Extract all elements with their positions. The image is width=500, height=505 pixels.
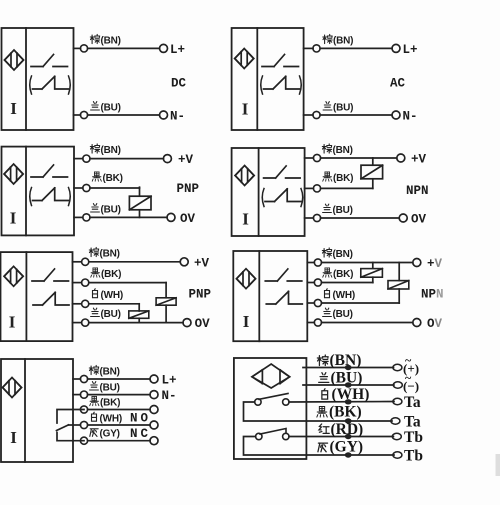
svg-text:(BN): (BN) <box>330 352 362 369</box>
wire load down to BK <box>372 179 374 189</box>
svg-text:(RD): (RD) <box>331 421 364 438</box>
svg-text:I: I <box>242 210 249 229</box>
wire WH branch down <box>138 304 140 311</box>
sensor symbol U2 <box>235 49 254 69</box>
wire load to 0V rail <box>139 210 141 218</box>
svg-text:(BK): (BK) <box>100 398 120 409</box>
svg-text:(BN): (BN) <box>101 145 121 156</box>
sensor box U4 <box>232 148 305 236</box>
parentheses <box>30 188 71 206</box>
wire BK <box>74 187 83 189</box>
artifact gray block at right edge <box>496 454 500 476</box>
sensor symbol U7 <box>3 378 22 398</box>
label BN <box>322 248 353 260</box>
svg-text:(BN): (BN) <box>333 145 353 156</box>
node +V <box>413 259 421 267</box>
relay common bracket from BK <box>57 410 84 424</box>
wire BU <box>74 216 83 218</box>
parentheses <box>262 189 303 207</box>
svg-text:(GY): (GY) <box>100 429 120 440</box>
node Tb1 <box>392 433 401 439</box>
node 0V <box>413 319 421 327</box>
wire BU <box>73 322 82 324</box>
node 0V <box>167 213 175 221</box>
node +V <box>163 155 171 163</box>
wire BU <box>73 394 80 396</box>
load R1 <box>129 196 151 210</box>
wire BK branch down <box>165 283 167 298</box>
wire BN <box>305 157 314 159</box>
programmable ramp S4b <box>265 189 301 202</box>
label BU <box>90 382 120 394</box>
wire +V rail down to load <box>372 158 374 165</box>
node Tb2 <box>393 452 402 458</box>
label BU <box>91 102 121 114</box>
svg-text:NPN: NPN <box>421 288 444 302</box>
parentheses <box>261 76 302 94</box>
label BK (big) <box>317 404 362 421</box>
wire WH <box>307 302 314 304</box>
wire load R5 to BK <box>372 277 374 282</box>
node N- <box>150 391 158 399</box>
label BU <box>323 102 353 114</box>
node N- <box>392 111 400 119</box>
label BN (big) <box>317 352 361 369</box>
load R2 <box>361 165 383 179</box>
node 0V <box>183 319 191 327</box>
svg-text:L+: L+ <box>170 43 185 57</box>
svg-text:(GY): (GY) <box>330 439 364 456</box>
svg-text:(WH): (WH) <box>101 290 124 301</box>
svg-text:NO: NO <box>130 412 151 426</box>
svg-text:I: I <box>9 313 16 332</box>
contact K2 bracket to GY wire <box>244 437 307 456</box>
wire BK <box>305 187 314 189</box>
node +V <box>180 258 188 266</box>
label WH <box>92 412 123 424</box>
node N- <box>160 111 168 119</box>
node Ta2 <box>391 418 400 424</box>
NO contact S6 <box>265 269 302 281</box>
svg-text:PNP: PNP <box>177 182 200 196</box>
programmable ramp S2b <box>264 76 300 89</box>
wire BK <box>306 420 392 422</box>
svg-text:(BN): (BN) <box>100 249 120 260</box>
svg-text:(BU): (BU) <box>101 205 121 216</box>
svg-text:OV: OV <box>180 212 196 226</box>
svg-text:I: I <box>10 209 17 228</box>
svg-text:N-: N- <box>170 110 185 124</box>
svg-text:NC: NC <box>130 427 151 441</box>
sensor symbol U8 (wide diamond) <box>252 364 290 388</box>
wire BK <box>73 282 82 284</box>
svg-text:(BN): (BN) <box>101 36 121 47</box>
sensor box U3 <box>2 147 75 236</box>
label WH <box>325 289 356 301</box>
svg-text:(BK): (BK) <box>329 404 362 421</box>
svg-text:AC: AC <box>390 77 406 91</box>
label BN <box>89 365 120 377</box>
svg-text:~: ~ <box>405 353 412 367</box>
svg-text:I: I <box>242 100 249 119</box>
label BK <box>323 268 354 280</box>
svg-text:+V: +V <box>194 256 210 270</box>
label BK <box>92 172 123 184</box>
svg-text:(BU): (BU) <box>333 103 353 114</box>
wire BN <box>307 262 314 264</box>
label BN <box>322 144 353 156</box>
wire BK <box>80 406 87 413</box>
node 0V <box>399 214 407 222</box>
svg-text:(BK): (BK) <box>101 269 121 280</box>
svg-text:L+: L+ <box>403 43 418 57</box>
NO contact S2 <box>262 55 299 67</box>
wire GY (NC) <box>80 437 87 444</box>
contact K1 arm <box>259 394 288 400</box>
wire BU <box>304 114 313 116</box>
ramp NC S5b <box>33 292 69 305</box>
wire BU <box>303 384 394 386</box>
parentheses around ramp <box>30 76 71 94</box>
label BN <box>90 34 121 46</box>
svg-text:+V: +V <box>427 257 443 271</box>
svg-text:(BK): (BK) <box>333 173 353 184</box>
sensor box U8 <box>234 358 307 459</box>
svg-text:DC: DC <box>171 77 187 91</box>
svg-text:(BU): (BU) <box>101 103 121 114</box>
sensor box U2 <box>232 28 304 130</box>
wire BN <box>304 47 313 49</box>
svg-text:(BK): (BK) <box>333 269 353 280</box>
contact K1 circles <box>255 399 261 405</box>
wire BU <box>305 217 314 219</box>
wire GY <box>306 454 394 456</box>
label BU <box>91 308 121 320</box>
ramp NC S6b <box>266 291 302 304</box>
svg-text:Ta: Ta <box>404 394 421 411</box>
wire BU <box>307 322 314 324</box>
label GY (big) <box>318 439 363 456</box>
wire RD from contact <box>289 436 393 438</box>
svg-text:(BU): (BU) <box>101 309 121 320</box>
label BU <box>91 204 121 216</box>
svg-text:N-: N- <box>403 110 418 124</box>
svg-text:~: ~ <box>405 371 412 385</box>
label BK <box>90 396 121 408</box>
label BN <box>323 34 354 46</box>
svg-text:(BU): (BU) <box>331 370 363 387</box>
svg-text:NPN: NPN <box>406 184 429 198</box>
sensor symbol U4 <box>235 166 254 186</box>
sensor symbol U5 <box>4 266 23 286</box>
label BK <box>91 268 122 280</box>
contact K2 circles <box>256 433 262 439</box>
wire BN <box>303 367 394 369</box>
wire BN <box>74 158 83 160</box>
svg-text:(BN): (BN) <box>100 367 120 378</box>
wire BK <box>307 282 314 284</box>
sensor box U6 <box>233 251 307 341</box>
label RD (big) <box>319 421 363 438</box>
svg-text:(WH): (WH) <box>100 414 123 425</box>
NO contact S3 <box>31 165 68 177</box>
label BU <box>323 204 353 216</box>
wire load to 0V rail <box>138 318 140 322</box>
contact K2 arm <box>260 429 286 435</box>
svg-text:(BN): (BN) <box>333 249 353 260</box>
svg-text:(WH): (WH) <box>332 386 370 403</box>
node L+ <box>392 44 400 52</box>
label BU <box>323 308 353 320</box>
svg-text:OV: OV <box>195 317 211 331</box>
node L+ <box>160 44 168 52</box>
node L+ <box>150 375 158 383</box>
svg-text:Tb: Tb <box>404 429 423 446</box>
svg-text:PNP: PNP <box>189 288 212 302</box>
svg-text:I: I <box>10 428 17 447</box>
sensor box U5 <box>1 252 73 341</box>
relay arm <box>57 425 69 431</box>
NO contact S5 <box>32 269 69 281</box>
wire BN <box>74 47 81 49</box>
svg-text:Ta: Ta <box>404 414 421 431</box>
wire +V down to load R6 <box>398 263 400 281</box>
svg-text:OV: OV <box>411 213 427 227</box>
node (-) <box>393 382 402 388</box>
load R5 <box>361 269 383 278</box>
svg-text:(BN): (BN) <box>333 36 353 47</box>
wire load R6 to WH <box>398 289 400 303</box>
wire WH <box>73 303 82 305</box>
label GY <box>90 429 120 440</box>
label BN <box>90 144 121 156</box>
node +V <box>397 154 405 162</box>
sensor box U1 <box>2 28 74 130</box>
label WH <box>93 289 124 301</box>
svg-text:(BK): (BK) <box>103 173 123 184</box>
NO contact S4 <box>264 166 301 178</box>
junction dot <box>345 365 352 370</box>
load R3 <box>156 298 176 305</box>
load R4 <box>129 311 149 318</box>
wire WH (NO) <box>69 424 81 426</box>
sensor symbol U3 <box>4 164 23 184</box>
label BN <box>89 247 120 259</box>
programmable ramp S3b <box>33 188 69 201</box>
load R6 <box>388 281 409 289</box>
svg-text:(WH): (WH) <box>333 290 356 301</box>
svg-text:+V: +V <box>178 153 194 167</box>
svg-text:Tb: Tb <box>404 448 423 465</box>
label WH (big) <box>322 386 370 403</box>
programmable ramp S1b <box>33 76 69 89</box>
wire WH from contact <box>289 401 394 404</box>
svg-text:N-: N- <box>162 389 177 403</box>
svg-text:L+: L+ <box>162 374 177 388</box>
svg-text:I: I <box>10 99 17 118</box>
wire BN <box>73 378 80 380</box>
label BK <box>323 172 354 184</box>
svg-text:I: I <box>243 312 250 331</box>
sensor symbol U1 <box>5 50 24 70</box>
contact K1 bracket to BK wire <box>244 402 307 421</box>
svg-text:+V: +V <box>411 153 427 167</box>
NO contact S1 <box>31 55 68 67</box>
svg-text:(BU): (BU) <box>333 309 353 320</box>
wire +V down to load R5 <box>372 263 374 268</box>
node Ta1 <box>393 398 402 404</box>
sensor symbol U6 <box>237 269 256 289</box>
svg-text:(BU): (BU) <box>333 205 353 216</box>
svg-text:OV: OV <box>427 317 443 331</box>
relay NC branch <box>57 433 84 441</box>
wire BU <box>74 114 81 116</box>
wire BN <box>73 261 82 263</box>
wire from BK down to load <box>139 187 141 196</box>
sensor box U7 <box>1 359 73 462</box>
label BU (big) <box>319 370 363 387</box>
svg-text:(BU): (BU) <box>100 383 120 394</box>
node (+) <box>393 364 402 370</box>
wire load to 0V rail <box>165 305 167 322</box>
